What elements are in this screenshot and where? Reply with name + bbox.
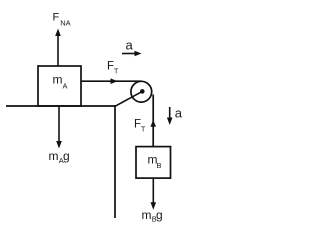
svg-text:F: F — [107, 61, 114, 73]
label mB — [148, 152, 162, 170]
label F_T (lower) — [134, 119, 146, 134]
table surface — [6, 105, 116, 107]
acceleration arrow a (top) — [122, 51, 142, 57]
label mA — [53, 73, 68, 91]
svg-text:m: m — [49, 149, 59, 163]
label mBg — [142, 208, 163, 224]
svg-text:A: A — [63, 82, 68, 91]
svg-text:F: F — [134, 119, 141, 131]
arrow mAg — [56, 106, 62, 149]
box mA — [38, 66, 81, 106]
acceleration arrow a (down) — [167, 107, 173, 125]
svg-text:a: a — [175, 105, 183, 120]
svg-text:F: F — [53, 11, 60, 23]
label F_T (top) — [107, 61, 119, 76]
pulley wheel — [131, 81, 152, 102]
pulley axle dot — [140, 89, 145, 94]
svg-text:B: B — [157, 161, 162, 170]
svg-text:m: m — [142, 208, 152, 222]
svg-text:T: T — [114, 68, 119, 75]
svg-text:a: a — [126, 38, 134, 53]
pulley support arm — [115, 91, 142, 106]
rope B with tension arrowhead — [150, 95, 156, 147]
svg-text:m: m — [53, 73, 63, 87]
box mB — [136, 147, 171, 179]
svg-text:NA: NA — [60, 19, 70, 28]
arrow F_NA — [55, 29, 61, 67]
svg-text:g: g — [156, 208, 163, 222]
rope A with tension arrowhead — [81, 78, 142, 84]
label F_NA — [53, 11, 71, 27]
arrow mBg — [151, 178, 157, 210]
svg-text:g: g — [63, 149, 70, 163]
svg-text:T: T — [141, 127, 146, 134]
label mAg — [49, 149, 70, 165]
table leg — [114, 105, 116, 218]
